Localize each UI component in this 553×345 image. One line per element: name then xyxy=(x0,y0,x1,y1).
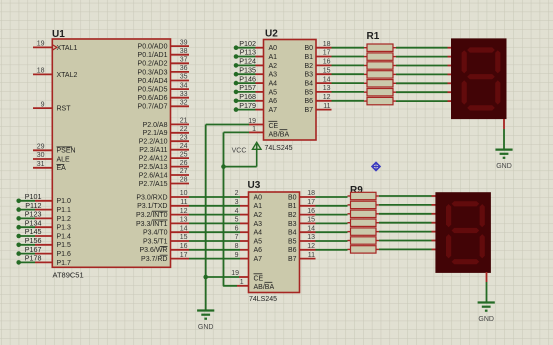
svg-text:U2: U2 xyxy=(265,29,278,40)
svg-text:5: 5 xyxy=(235,217,239,224)
svg-text:3: 3 xyxy=(235,199,239,206)
svg-text:B7: B7 xyxy=(288,256,297,263)
wire U1 pin P1.5 stub xyxy=(35,244,53,246)
svg-text:P3.4/T0: P3.4/T0 xyxy=(143,230,168,237)
wire R9-5 right lead xyxy=(376,231,379,233)
svg-text:31: 31 xyxy=(37,161,45,168)
wire U3 B4 to R9 xyxy=(316,231,348,233)
node P179 junction xyxy=(234,107,239,112)
wire U2 pin B5 stub xyxy=(315,91,332,93)
wire U1 pin 9 (RST) stub xyxy=(33,107,53,109)
wire U1 pin P0.6 stub xyxy=(170,97,190,99)
node P178 junction xyxy=(16,260,21,265)
svg-text:B1: B1 xyxy=(288,203,297,210)
wire net P156 green xyxy=(19,244,35,246)
svg-text:A6: A6 xyxy=(254,247,263,254)
wire U1 pin P3.4 stub xyxy=(170,231,190,233)
wire U1 pin P2.2 stub xyxy=(170,140,190,142)
svg-text:P101: P101 xyxy=(25,192,42,201)
svg-text:U3: U3 xyxy=(248,180,261,191)
wire U1 pin P2.4 stub xyxy=(170,157,190,159)
wire U1 pin P3.0 stub xyxy=(170,196,190,198)
wire U1 pin P3.3 stub xyxy=(170,222,190,224)
node P156 junction xyxy=(16,243,21,248)
wire R1-3 right lead xyxy=(393,65,396,67)
svg-text:P135: P135 xyxy=(239,65,256,74)
svg-text:P157: P157 xyxy=(239,83,256,92)
resistor R1 element 1 xyxy=(367,44,393,51)
wire net P145 green xyxy=(19,235,35,237)
wire display pin stub 4 xyxy=(448,73,452,75)
svg-text:P1.6: P1.6 xyxy=(57,251,72,258)
wire R9-2 to display xyxy=(379,204,432,206)
wire U2 B0 to R1 xyxy=(332,47,365,49)
svg-text:AT89C51: AT89C51 xyxy=(53,271,84,280)
wire U1 pin P0.5 stub xyxy=(170,88,190,90)
wire U2 pin B3 stub xyxy=(315,73,332,75)
wire R1-7 to display xyxy=(396,100,448,102)
wire U2 pin A4 stub xyxy=(256,82,265,84)
svg-text:P2.5/A13: P2.5/A13 xyxy=(139,164,168,171)
wire display pin stub 1 xyxy=(448,47,452,49)
svg-text:XTAL1: XTAL1 xyxy=(57,45,78,52)
wire R1-3 left lead xyxy=(364,65,367,67)
svg-text:7: 7 xyxy=(235,234,239,241)
resistor R1 element 2 xyxy=(367,53,393,60)
svg-text:P0.7/AD7: P0.7/AD7 xyxy=(138,104,168,111)
resistor R9 element 3 xyxy=(351,210,377,217)
wire U1 pin P2.5 stub xyxy=(170,166,190,168)
svg-text:P2.6/A14: P2.6/A14 xyxy=(139,172,168,179)
wire R1-1 left lead xyxy=(364,47,367,49)
wire U2 pin B6 stub xyxy=(315,100,332,102)
node P113 junction xyxy=(234,54,239,59)
svg-text:B0: B0 xyxy=(304,45,313,52)
pin marker XTAL1 clock arrow xyxy=(52,45,57,51)
wire display2 pin stub 1 xyxy=(432,195,436,197)
wire R9-1 to display xyxy=(379,195,432,197)
svg-text:9: 9 xyxy=(235,252,239,259)
resistor R9 element 5 xyxy=(351,228,377,235)
wire net P146 green xyxy=(236,82,256,84)
wire U3 pin A3 stub xyxy=(240,222,250,224)
wire U1 pin P1.0 stub xyxy=(35,200,53,202)
wire display1 to GND xyxy=(503,129,505,149)
svg-text:CE: CE xyxy=(254,276,264,283)
wire U2 B1 to R1 xyxy=(332,56,365,58)
svg-text:P146: P146 xyxy=(239,74,256,83)
wire display pin stub 2 xyxy=(448,56,452,58)
wire R1-5 right lead xyxy=(393,82,396,84)
wire R9-7 to display xyxy=(379,248,432,250)
svg-text:P102: P102 xyxy=(239,39,256,48)
wire net P168 green xyxy=(236,100,256,102)
svg-text:16: 16 xyxy=(180,243,188,250)
svg-text:27: 27 xyxy=(180,168,188,175)
wire U1 pin P0.4 stub xyxy=(170,80,190,82)
wire U3 B1 to R9 xyxy=(316,205,348,207)
svg-text:34: 34 xyxy=(180,82,188,89)
wire U1 pin P1.2 stub xyxy=(35,217,53,219)
svg-text:P3.0/RXD: P3.0/RXD xyxy=(136,194,167,201)
svg-text:12: 12 xyxy=(323,94,331,101)
node P168 junction xyxy=(234,99,239,104)
wire U2 pin AB/BA stub xyxy=(249,131,265,133)
svg-text:P0.5/AD5: P0.5/AD5 xyxy=(138,87,168,94)
svg-text:VCC: VCC xyxy=(232,148,247,155)
svg-text:25: 25 xyxy=(180,151,188,158)
wire U3 pin B6 stub xyxy=(299,249,316,251)
wire U3 B5 to R9 xyxy=(316,240,348,242)
resistor R9 element 7 xyxy=(351,246,377,253)
wire U1 pin P0.0 stub xyxy=(170,45,190,47)
svg-text:A6: A6 xyxy=(269,98,278,105)
wire U3 pin CE stub xyxy=(239,276,250,278)
wire net P167 green xyxy=(19,253,35,255)
resistor R1 element 5 xyxy=(367,80,393,87)
wire U2 pin A0 stub xyxy=(256,47,265,49)
wire R1-5 left lead xyxy=(364,82,367,84)
wire U1 pin P3.5 stub xyxy=(170,240,190,242)
svg-text:A0: A0 xyxy=(269,45,278,52)
svg-text:R1: R1 xyxy=(367,31,380,42)
svg-text:A1: A1 xyxy=(269,54,278,61)
svg-text:39: 39 xyxy=(180,39,188,46)
wire U3 B0 to R9 xyxy=(316,196,348,198)
ground GND under display1 xyxy=(495,149,512,151)
svg-text:17: 17 xyxy=(323,50,331,57)
svg-text:B2: B2 xyxy=(304,63,313,70)
wire R9-6 right lead xyxy=(376,240,379,242)
svg-text:13: 13 xyxy=(180,217,188,224)
wire U2 pin B2 stub xyxy=(315,64,332,66)
wire R1-2 right lead xyxy=(393,56,396,58)
wire U2 pin B1 stub xyxy=(315,56,332,58)
svg-text:P1.2: P1.2 xyxy=(57,216,72,223)
svg-text:GND: GND xyxy=(478,316,494,323)
svg-text:RST: RST xyxy=(57,106,72,113)
wire U3 pin B3 stub xyxy=(299,222,316,224)
svg-text:P2.0/A8: P2.0/A8 xyxy=(143,122,168,129)
svg-text:A4: A4 xyxy=(254,230,263,237)
wire R1-4 right lead xyxy=(393,73,396,75)
svg-text:B5: B5 xyxy=(288,238,297,245)
wire R1-5 to display xyxy=(396,82,448,84)
wire U3 pin B5 stub xyxy=(299,240,316,242)
wire R1-1 to display xyxy=(396,47,448,49)
svg-text:19: 19 xyxy=(37,41,45,48)
svg-text:23: 23 xyxy=(180,134,188,141)
wire U1 pin 31 (EA) stub xyxy=(33,167,53,169)
svg-text:P1.5: P1.5 xyxy=(57,242,72,249)
svg-text:16: 16 xyxy=(323,59,331,66)
svg-text:B7: B7 xyxy=(304,107,313,114)
wire R1-2 to display xyxy=(396,56,448,58)
svg-text:P3.1/TXD: P3.1/TXD xyxy=(137,203,167,210)
wire R9-5 to display xyxy=(379,231,432,233)
wire net P123 green xyxy=(19,217,35,219)
wire net P135 green xyxy=(236,73,256,75)
svg-text:15: 15 xyxy=(180,234,188,241)
svg-text:P113: P113 xyxy=(240,48,256,57)
wire R1-4 left lead xyxy=(364,73,367,75)
svg-text:12: 12 xyxy=(180,208,188,215)
wire R1-1 right lead xyxy=(393,47,396,49)
wire R9-4 left lead xyxy=(348,222,351,224)
svg-text:P156: P156 xyxy=(25,236,42,245)
svg-text:A2: A2 xyxy=(254,212,263,219)
display bottom 7-segment body xyxy=(435,192,491,273)
wire net P101 green xyxy=(19,200,35,202)
wire R9-7 right lead xyxy=(376,248,379,250)
wire U3 CE net green xyxy=(206,276,239,278)
svg-text:PSEN: PSEN xyxy=(57,148,76,155)
svg-text:6: 6 xyxy=(235,225,239,232)
node P124 junction xyxy=(234,63,239,68)
svg-text:P3.3/INT1: P3.3/INT1 xyxy=(136,221,168,228)
node VCC net junction xyxy=(221,164,226,169)
ground GND under display2 xyxy=(478,301,495,303)
svg-text:B2: B2 xyxy=(288,212,297,219)
wire P3.7 to U3 A7 xyxy=(189,258,240,260)
wire U3 B2 to R9 xyxy=(316,214,348,216)
wire R9-3 right lead xyxy=(376,213,379,215)
wire U2 B4 to R1 xyxy=(332,82,365,84)
resistor R1 element 4 xyxy=(367,71,393,78)
wire R1-6 left lead xyxy=(364,91,367,93)
wire U1 pin 30 (ALE) stub xyxy=(33,158,53,160)
svg-text:B5: B5 xyxy=(304,89,313,96)
svg-text:P167: P167 xyxy=(25,245,42,254)
svg-text:24: 24 xyxy=(180,143,188,150)
wire U2 pin A5 stub xyxy=(256,91,265,93)
svg-text:18: 18 xyxy=(323,41,331,48)
svg-text:37: 37 xyxy=(180,57,188,64)
svg-text:P168: P168 xyxy=(239,92,256,101)
node P135 junction xyxy=(234,72,239,77)
wire display1 common pin xyxy=(503,119,505,129)
wire U3 pin AB/BA stub xyxy=(237,285,250,287)
wire R9-3 left lead xyxy=(348,213,351,215)
wire U2 B2 to R1 xyxy=(332,64,365,66)
wire U2 pin B0 stub xyxy=(315,47,332,49)
svg-text:P0.6/AD6: P0.6/AD6 xyxy=(138,95,168,102)
wire U3 pin A4 stub xyxy=(240,231,250,233)
svg-text:A4: A4 xyxy=(269,81,278,88)
svg-text:35: 35 xyxy=(180,74,188,81)
wire U1 pin 29 (PSEN) stub xyxy=(33,149,53,151)
svg-text:P3.6/WR: P3.6/WR xyxy=(139,247,167,254)
resistor R9 element 4 xyxy=(351,219,377,226)
wire R9-6 left lead xyxy=(348,240,351,242)
svg-text:19: 19 xyxy=(248,118,256,125)
wire U2 B5 to R1 xyxy=(332,91,365,93)
svg-text:P1.3: P1.3 xyxy=(57,225,72,232)
wire U2 AB/BA net green xyxy=(224,131,250,133)
node P102 junction xyxy=(234,45,239,50)
svg-text:A5: A5 xyxy=(269,89,278,96)
buffer U3 body 74LS245 xyxy=(249,192,300,293)
svg-text:38: 38 xyxy=(180,48,188,55)
svg-text:A2: A2 xyxy=(269,63,278,70)
wire U1 pin P2.0 stub xyxy=(170,123,190,125)
wire U3 pin A2 stub xyxy=(240,214,250,216)
svg-text:P2.4/A12: P2.4/A12 xyxy=(139,156,168,163)
wire display2 pin stub 5 xyxy=(432,231,436,233)
svg-text:P1.0: P1.0 xyxy=(57,198,72,205)
svg-text:P1.7: P1.7 xyxy=(57,260,72,267)
wire U1 pin P0.2 stub xyxy=(170,62,190,64)
wire display2 to GND xyxy=(486,282,488,302)
svg-text:B6: B6 xyxy=(304,98,313,105)
wire U1 pin P2.6 stub xyxy=(170,174,190,176)
svg-text:B3: B3 xyxy=(304,72,313,79)
svg-text:15: 15 xyxy=(307,217,315,224)
svg-text:B1: B1 xyxy=(304,54,313,61)
wire R9-2 left lead xyxy=(348,204,351,206)
svg-text:P0.2/AD2: P0.2/AD2 xyxy=(138,61,168,68)
wire U1 pin P1.7 stub xyxy=(35,261,53,263)
ground GND middle CE net xyxy=(197,309,214,311)
svg-text:22: 22 xyxy=(180,126,188,133)
wire P3.1 to U3 A1 xyxy=(189,205,240,207)
svg-text:P0.0/AD0: P0.0/AD0 xyxy=(138,44,168,51)
wire U1 pin P1.6 stub xyxy=(35,253,53,255)
resistor R9 element 2 xyxy=(351,201,377,208)
svg-text:P2.3/A11: P2.3/A11 xyxy=(139,147,167,154)
resistor R1 element 3 xyxy=(367,62,393,69)
wire U1 pin P3.7 stub xyxy=(170,258,190,260)
wire U3 B3 to R9 xyxy=(316,222,348,224)
wire U3 pin B7 stub xyxy=(299,258,316,260)
svg-text:10: 10 xyxy=(180,190,188,197)
svg-text:11: 11 xyxy=(180,199,187,206)
svg-text:15: 15 xyxy=(323,67,331,74)
wire U1 pin P0.3 stub xyxy=(170,71,190,73)
wire display2 pin stub 2 xyxy=(432,204,436,206)
svg-text:26: 26 xyxy=(180,160,188,167)
svg-text:16: 16 xyxy=(307,208,315,215)
svg-text:P0.1/AD1: P0.1/AD1 xyxy=(138,52,168,59)
wire R9-6 to display xyxy=(379,240,432,242)
wire U1 pin P0.1 stub xyxy=(170,54,190,56)
svg-text:XTAL2: XTAL2 xyxy=(57,72,78,79)
svg-text:P112: P112 xyxy=(25,201,41,210)
svg-text:32: 32 xyxy=(180,100,188,107)
wire net P157 green xyxy=(236,91,256,93)
wire U1 pin P2.3 stub xyxy=(170,149,190,151)
svg-text:B4: B4 xyxy=(304,81,313,88)
wire display2 pin stub 3 xyxy=(432,213,436,215)
wire U1 pin P1.4 stub xyxy=(35,235,53,237)
resistor R1 element 7 xyxy=(367,97,393,104)
wire U1 pin P3.6 stub xyxy=(170,249,190,251)
svg-text:P2.7/A15: P2.7/A15 xyxy=(139,181,168,188)
wire U1 pin P1.3 stub xyxy=(35,226,53,228)
wire P3.4 to U3 A4 xyxy=(189,231,240,233)
svg-text:A3: A3 xyxy=(269,72,278,79)
wire U2 pin A1 stub xyxy=(256,56,265,58)
wire U3 pin A5 stub xyxy=(240,240,250,242)
wire R9-1 left lead xyxy=(348,195,351,197)
wire R9-4 to display xyxy=(379,222,432,224)
svg-text:U1: U1 xyxy=(52,29,65,40)
svg-text:B6: B6 xyxy=(288,247,297,254)
wire AB/BA vertical net xyxy=(224,132,238,285)
svg-text:P134: P134 xyxy=(25,218,42,227)
wire net P112 green xyxy=(19,209,35,211)
svg-text:P3.7/RD: P3.7/RD xyxy=(141,256,167,263)
display top 7-segment body xyxy=(451,38,507,119)
wire R1-3 to display xyxy=(396,65,448,67)
svg-text:12: 12 xyxy=(307,243,315,250)
wire U2 pin B4 stub xyxy=(315,82,332,84)
wire U1 pin P1.1 stub xyxy=(35,209,53,211)
svg-text:EA: EA xyxy=(57,165,67,172)
svg-text:P3.2/INT0: P3.2/INT0 xyxy=(136,212,168,219)
svg-text:74LS245: 74LS245 xyxy=(249,296,277,303)
wire display pin stub 5 xyxy=(448,82,452,84)
wire net P179 green xyxy=(236,109,256,111)
svg-text:21: 21 xyxy=(180,118,188,125)
wire U2 pin B7 stub xyxy=(315,109,332,111)
wire net P113 green xyxy=(236,56,256,58)
wire net P102 green xyxy=(236,47,256,49)
node P145 junction xyxy=(16,234,21,239)
svg-text:B4: B4 xyxy=(288,230,297,237)
svg-text:P145: P145 xyxy=(25,227,42,236)
svg-text:13: 13 xyxy=(307,234,315,241)
svg-text:4: 4 xyxy=(235,208,239,215)
node P134 junction xyxy=(16,225,21,230)
resistor R9 element 1 xyxy=(351,192,377,199)
wire U1 pin P2.1 stub xyxy=(170,132,190,134)
svg-text:P2.2/A10: P2.2/A10 xyxy=(139,139,168,146)
wire P3.6 to U3 A6 xyxy=(189,249,240,251)
wire U2 pin A7 stub xyxy=(256,109,265,111)
svg-text:P124: P124 xyxy=(239,57,256,66)
wire U3 pin A1 stub xyxy=(240,205,250,207)
wire U3 pin A0 stub xyxy=(240,196,250,198)
svg-text:18: 18 xyxy=(37,68,45,75)
svg-text:AB/BA: AB/BA xyxy=(254,284,275,291)
wire U3 pin A6 stub xyxy=(240,249,250,251)
svg-text:P0.4/AD4: P0.4/AD4 xyxy=(138,78,168,85)
wire display pin stub 3 xyxy=(448,65,452,67)
wire U2 CE net green xyxy=(206,124,249,126)
svg-text:28: 28 xyxy=(180,177,188,184)
svg-text:36: 36 xyxy=(180,65,188,72)
wire U1 pin P3.2 stub xyxy=(170,214,190,216)
wire U3 pin B1 stub xyxy=(299,205,316,207)
svg-text:13: 13 xyxy=(323,85,331,92)
wire U3 pin B2 stub xyxy=(299,214,316,216)
wire VCC to net xyxy=(256,144,258,167)
wire U3 pin A7 stub xyxy=(240,258,250,260)
wire U3 pin B4 stub xyxy=(299,231,316,233)
svg-text:17: 17 xyxy=(180,252,188,259)
wire U2 pin A3 stub xyxy=(256,73,265,75)
wire U1 pin P0.7 stub xyxy=(170,105,190,107)
node P112 junction xyxy=(16,207,21,212)
wire net P178 green xyxy=(19,261,35,263)
svg-text:P3.5/T1: P3.5/T1 xyxy=(143,238,168,245)
wire U2 pin A6 stub xyxy=(256,100,265,102)
wire U3 B6 to R9 xyxy=(316,249,348,251)
svg-text:19: 19 xyxy=(231,270,239,277)
svg-text:74LS245: 74LS245 xyxy=(265,145,293,152)
wire R1-2 left lead xyxy=(364,56,367,58)
